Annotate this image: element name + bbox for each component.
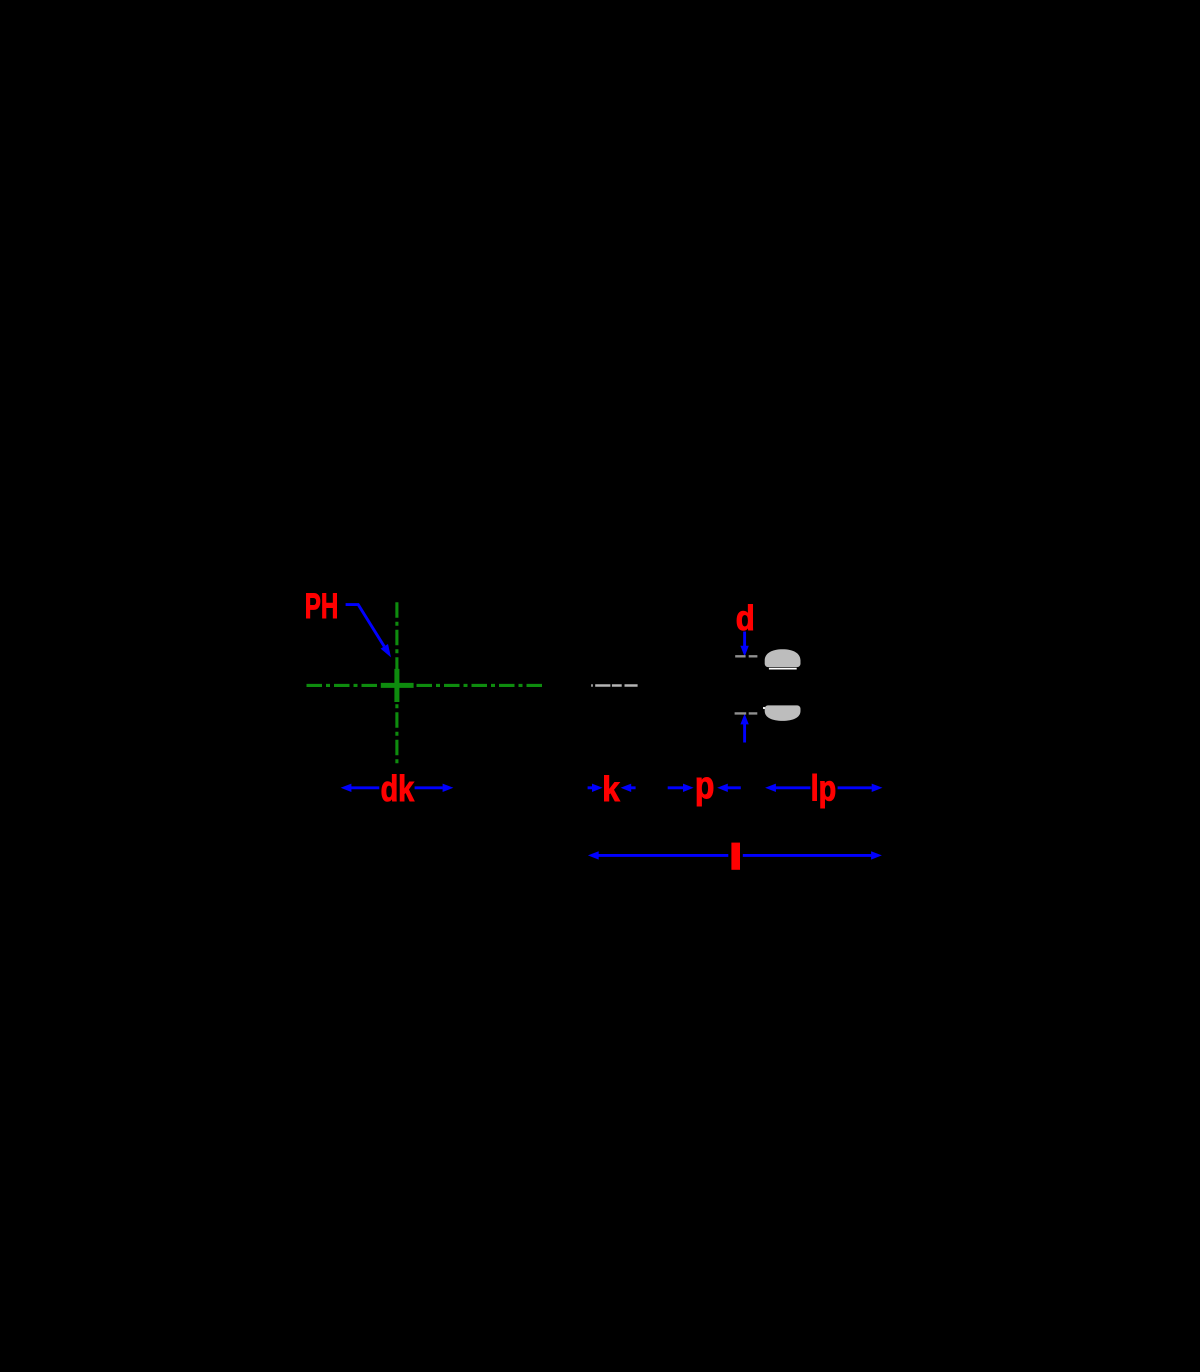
l dimension left arrow xyxy=(588,851,599,859)
svg-text:k: k xyxy=(602,770,620,809)
k dimension left arrow (pointing right) xyxy=(588,786,593,789)
leader line from PH to recess xyxy=(346,605,385,647)
thread section upper (grey dome) xyxy=(765,649,801,667)
dk dimension left arrow xyxy=(341,784,352,792)
lp dimension left arrow xyxy=(765,784,776,792)
d extension dashes lower xyxy=(735,712,758,714)
drawing card (opaque black rectangle) xyxy=(300,386,900,986)
thread section lower (grey inverted dome) xyxy=(765,705,801,721)
leader arrowhead xyxy=(381,644,391,657)
label l (screw length) xyxy=(731,843,740,870)
white line under upper thread section xyxy=(769,668,797,670)
svg-text:PH: PH xyxy=(305,587,339,626)
svg-text:p: p xyxy=(695,765,715,807)
d dimension lower arrow (pointing up) xyxy=(743,724,746,743)
axis dashes crossing the head side view (grey) xyxy=(591,684,637,687)
l dimension right arrow xyxy=(743,854,872,857)
k dimension right arrow (pointing left) xyxy=(621,784,632,792)
white speck left of lower thread section xyxy=(763,707,765,709)
dk dimension right arrow xyxy=(415,786,443,789)
d dimension upper arrow (pointing down) xyxy=(743,632,746,647)
p dimension right arrow (pointing left) xyxy=(717,784,728,792)
horizontal centerline (screw axis, front view part) xyxy=(307,684,546,687)
p dimension left arrow (pointing right) xyxy=(668,786,683,789)
centerline cross mark at intersection xyxy=(381,669,414,702)
svg-text:lp: lp xyxy=(811,767,837,808)
lp dimension right arrow xyxy=(838,786,872,789)
svg-text:dk: dk xyxy=(381,768,415,809)
vertical centerline of head front view xyxy=(395,602,398,763)
d extension dashes upper xyxy=(735,655,757,657)
